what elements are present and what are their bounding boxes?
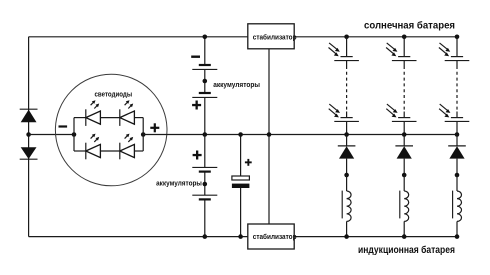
battery GB2 cell 1 <box>192 167 217 171</box>
inductor L1 with core <box>342 191 351 222</box>
node middle rail solar 3 <box>455 132 460 137</box>
inductor L3 with core <box>453 191 462 222</box>
wire stabilizer link vertical <box>268 49 270 224</box>
node bottom rail battery <box>203 234 208 239</box>
battery GB1 wire upper bottom <box>204 97 206 134</box>
wire bottom row segment b <box>100 150 119 152</box>
solar cell 1B <box>329 104 359 121</box>
node middle rail battery <box>203 132 208 137</box>
battery GB1 cell 1 <box>192 65 217 69</box>
node middle rail stabilizer <box>267 132 272 137</box>
wire inductor 1 to bottom rail <box>346 221 348 236</box>
wire solar2 dashed <box>403 61 405 118</box>
diode VD2 bottom-left (cathode down) <box>20 147 38 159</box>
wire left branch vertical <box>28 37 30 237</box>
inductor L2 with core <box>400 191 409 222</box>
svg-text:аккумуляторы: аккумуляторы <box>156 179 202 188</box>
LED HL1 (top row left) <box>86 100 101 126</box>
node bottom rail branch 1 <box>344 234 349 239</box>
solar cell 3A <box>439 43 469 61</box>
node bridge left <box>72 132 77 137</box>
solar cell 1A <box>329 43 359 61</box>
node bottom rail branch 3 <box>455 234 460 239</box>
node battery GB1 middle <box>203 79 208 84</box>
node bottom rail capacitor <box>238 234 243 239</box>
diode VD1 top-left (cathode up) <box>20 109 38 122</box>
node battery GB2 middle <box>203 182 208 187</box>
diode VD4 (branch 2) <box>395 135 413 176</box>
wire to inductor 1 <box>346 175 348 191</box>
wire bottom row segment c <box>134 150 143 152</box>
label minus battery GB1 <box>191 56 200 58</box>
svg-text:светодиоды: светодиоды <box>95 90 133 99</box>
wire top rail left segment <box>29 36 248 38</box>
wire bridge left vertical <box>73 118 75 151</box>
diode VD5 (branch 3) <box>448 135 466 176</box>
label plus battery GB1 <box>192 101 201 110</box>
LED HL3 (bottom row left) <box>86 134 101 160</box>
svg-text:аккумуляторы: аккумуляторы <box>213 80 260 89</box>
LED HL2 (top row right) <box>120 100 135 126</box>
node middle rail solar 2 <box>402 132 407 137</box>
solar cell 2A <box>386 43 416 61</box>
wire top row segment a <box>74 117 86 119</box>
node top rail solar 3 <box>455 35 460 40</box>
battery GB2 wire top <box>204 135 206 168</box>
wire bottom rail left segment <box>29 236 248 238</box>
node top rail solar 2 <box>402 35 407 40</box>
battery GB1 wire upper top <box>204 37 206 65</box>
LED HL4 (bottom row right) <box>120 134 135 160</box>
wire solar3 bottom <box>456 121 458 134</box>
wire middle rail <box>143 134 457 136</box>
svg-text:индукционная батарея: индукционная батарея <box>358 244 455 256</box>
label minus (left terminal) <box>59 125 68 127</box>
stabilizer box U2 (bottom) <box>248 224 297 249</box>
battery GB2 wire mid <box>204 172 206 196</box>
node left diode junction <box>26 132 31 137</box>
wire to inductor 2 <box>403 175 405 191</box>
node middle rail capacitor <box>238 132 243 137</box>
wire solar3 top <box>456 37 458 57</box>
svg-text:стабилизатор: стабилизатор <box>253 232 297 241</box>
label plus battery GB2 <box>193 151 202 160</box>
wire solar2 bottom <box>403 121 405 134</box>
wire to inductor 3 <box>456 175 458 191</box>
stabilizer box U1 (top) <box>248 24 297 49</box>
wire bottom rail right segment <box>294 236 457 238</box>
capacitor C1 plates <box>232 176 250 188</box>
node middle rail solar 1 <box>344 132 349 137</box>
node bridge right <box>141 132 146 137</box>
battery GB1 cell 2 <box>192 93 217 97</box>
node top rail solar 1 <box>344 35 349 40</box>
battery GB2 cell 2 <box>192 195 217 199</box>
label plus capacitor <box>245 159 252 166</box>
node top rail battery <box>203 35 208 40</box>
wire node to LED bridge <box>29 134 74 136</box>
svg-text:солнечная батарея: солнечная батарея <box>364 19 455 31</box>
battery GB1 wire upper mid <box>204 69 206 93</box>
label plus (right terminal) <box>150 123 159 132</box>
node inductor 2 <box>402 173 407 178</box>
capacitor C1 wire bottom <box>240 188 242 237</box>
wire top rail right segment <box>294 36 457 38</box>
solar cell 2B <box>386 104 416 121</box>
wire solar1 top <box>346 37 348 57</box>
solar cell 3B <box>439 104 469 121</box>
wire bottom row segment a <box>74 150 86 152</box>
capacitor C1 wire top <box>240 135 242 177</box>
wire solar2 top <box>403 37 405 57</box>
node bottom rail branch 2 <box>402 234 407 239</box>
diode VD3 (branch 1) <box>338 135 356 176</box>
wire inductor 2 to bottom rail <box>403 221 405 236</box>
battery GB2 wire bottom <box>204 199 206 236</box>
wire solar1 bottom <box>346 121 348 134</box>
wire top row segment b <box>100 117 119 119</box>
node inductor 1 <box>344 173 349 178</box>
wire solar1 dashed <box>346 61 348 118</box>
svg-text:стабилизатор: стабилизатор <box>253 32 297 41</box>
wire inductor 3 to bottom rail <box>456 221 458 236</box>
wire solar3 dashed <box>456 61 458 118</box>
node inductor 3 <box>455 173 460 178</box>
LED block circle outline <box>55 74 167 186</box>
wire top row segment c <box>134 117 143 119</box>
wire bridge right vertical <box>142 118 144 151</box>
